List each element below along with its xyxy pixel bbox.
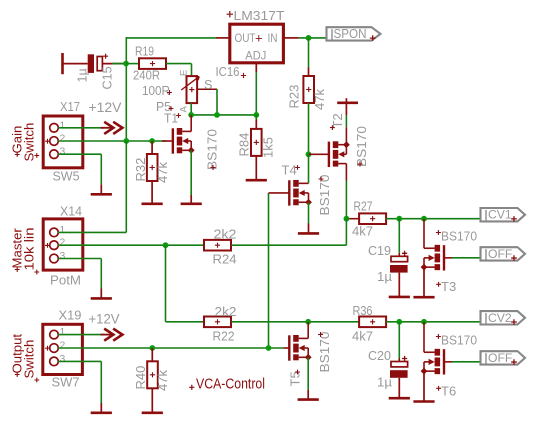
node junction R24 left (163, 242, 169, 248)
connector X17 box (43, 116, 83, 168)
transistor T6 BS170 (443, 349, 445, 374)
svg-text:R32: R32 (133, 158, 148, 182)
wire T1 source down (190, 150, 192, 195)
svg-text:Switch: Switch (22, 123, 37, 162)
wire C19 bottom (398, 273, 400, 297)
svg-text:BS170: BS170 (317, 175, 332, 216)
wire supply to T2 drain (345, 115, 347, 127)
ground T6 (413, 400, 434, 403)
svg-text:OFF: OFF (488, 247, 512, 261)
connector X14 pins (50, 228, 59, 237)
svg-text:1µ: 1µ (377, 375, 392, 390)
capacitor C15 (88, 54, 94, 73)
node junction ADJ/R84 (253, 112, 259, 118)
label T3 (436, 282, 441, 287)
wire T6 gate to OFF (452, 361, 481, 363)
connector X19 box (43, 324, 83, 374)
svg-text:1: 1 (60, 225, 66, 236)
svg-text:3: 3 (60, 354, 66, 365)
resistor R19 (139, 58, 166, 69)
wire T2gate node down (308, 154, 310, 183)
node junction R40 (149, 345, 155, 351)
svg-text:BS170: BS170 (354, 126, 369, 167)
svg-text:IN: IN (268, 31, 278, 45)
svg-text:R27: R27 (354, 199, 373, 214)
ground R84 (246, 179, 267, 182)
wire IN node down (308, 38, 310, 68)
svg-text:2: 2 (60, 238, 66, 249)
wire C20 bottom (398, 378, 400, 398)
svg-text:1: 1 (60, 120, 66, 131)
wire T4 source down (308, 202, 310, 223)
wire T5 source down (307, 357, 309, 390)
wiper S wire (197, 88, 218, 90)
label LM317T (227, 11, 233, 17)
svg-text:1: 1 (60, 327, 66, 338)
svg-text:SPON: SPON (334, 27, 367, 41)
svg-text:CV2: CV2 (488, 311, 512, 325)
svg-text:C19: C19 (368, 243, 391, 258)
ground R32 (142, 203, 163, 206)
svg-text:T6: T6 (441, 384, 456, 399)
svg-text:S: S (204, 78, 212, 92)
node junction C19 top (396, 216, 402, 222)
connector X19 pins (50, 330, 59, 339)
wire X17 pin1 to +12V (58, 127, 104, 129)
svg-text:R36: R36 (353, 303, 373, 318)
X14 origin cross (45, 243, 50, 248)
resistor R24 (204, 240, 231, 251)
wire OUT rail top (126, 37, 216, 39)
wire T6 source down (423, 371, 425, 401)
node junction R32 (149, 138, 155, 144)
svg-text:X17: X17 (60, 99, 80, 114)
svg-text:47k: 47k (155, 162, 170, 183)
resistor R40 (147, 361, 158, 388)
svg-text:2k2: 2k2 (215, 304, 237, 319)
capacitor C20 (391, 362, 408, 367)
wire T2 source to R27 (346, 218, 359, 220)
wire CV2 node down (423, 322, 425, 352)
node junction R27 left (344, 216, 350, 222)
ground X14 pin3 (100, 289, 102, 299)
pin R84 top (255, 120, 257, 130)
pin OUT (216, 37, 230, 39)
svg-text:VCA-Control: VCA-Control (196, 377, 265, 393)
wire T2 source down (345, 164, 347, 181)
wire R24left down (165, 245, 167, 322)
wire R24 right (231, 244, 346, 246)
node junction T2 gate (306, 151, 312, 157)
ground X19 pin3 (100, 403, 102, 413)
flag CV1 (481, 208, 526, 221)
wire R22/R36 node down to T5 (307, 322, 309, 339)
svg-text:X14: X14 (60, 204, 82, 219)
svg-text:T4: T4 (282, 163, 297, 178)
wire X14 pin2 (58, 244, 204, 246)
wire X19 pin2 (58, 347, 284, 349)
svg-text:X19: X19 (59, 308, 82, 323)
svg-text:4k7: 4k7 (352, 224, 373, 239)
svg-text:OUT: OUT (235, 31, 256, 45)
node junction rail/pin2 (123, 138, 129, 144)
transistor T2 BS170 (328, 142, 330, 167)
wire node to R19 (126, 63, 139, 65)
svg-text:C15: C15 (101, 66, 115, 89)
wire to R40 (151, 348, 153, 362)
resistor R27 (359, 213, 386, 224)
wire to R32 (151, 141, 153, 154)
label T6 (436, 386, 441, 391)
wire X19 pin3 (58, 360, 101, 362)
X17 origin cross (45, 139, 50, 144)
svg-text:Switch: Switch (22, 340, 37, 379)
ground T5 (307, 390, 309, 400)
pin ADJ (255, 62, 257, 73)
node junction T5 gate riser (266, 345, 272, 351)
supply +12V chevron X19 (101, 334, 113, 336)
supply bar T2 (337, 102, 358, 105)
transistor T4 BS170 (288, 180, 290, 205)
wire R27 right (386, 218, 480, 220)
svg-text:BS170: BS170 (205, 129, 220, 170)
wire X17 pin3 (58, 153, 101, 155)
wire T4 gate riser (268, 193, 270, 348)
svg-text:T5: T5 (288, 371, 303, 386)
svg-text:+: + (255, 30, 263, 45)
transistor T3 BS170 (443, 245, 445, 270)
svg-text:CV1: CV1 (488, 208, 512, 222)
pin IN (284, 37, 299, 39)
wire X14 pin3 (58, 258, 101, 260)
node junction C20 top (396, 319, 402, 325)
connector X14 box (43, 219, 83, 270)
node junction wiper (214, 112, 220, 118)
flag OFF2 (481, 351, 526, 364)
wire ADJ down (255, 72, 257, 115)
svg-text:1µ: 1µ (76, 68, 90, 82)
pin T3 gate (444, 257, 452, 259)
wire T1 drain up (190, 115, 192, 131)
svg-text:3: 3 (60, 147, 66, 158)
connector X17 pins (50, 124, 59, 133)
ground T3 (413, 296, 434, 299)
svg-text:100R: 100R (142, 83, 170, 98)
svg-text:1k5: 1k5 (261, 137, 276, 158)
pin T6 gate (444, 361, 452, 363)
svg-text:R40: R40 (133, 366, 148, 390)
wire R36 right (386, 321, 480, 323)
wire X14 pin1 (58, 231, 126, 233)
svg-text:240R: 240R (133, 68, 160, 83)
resistor R32 (147, 154, 158, 181)
transistor T5 BS170 (288, 335, 290, 360)
wire T3 source down (423, 267, 425, 297)
label VCA-Control (189, 385, 194, 390)
svg-text:BS170: BS170 (441, 229, 477, 244)
potentiometer P5 (187, 76, 198, 103)
svg-text:BS170: BS170 (441, 333, 477, 348)
wire R84 to ground (255, 156, 257, 180)
node junction T5 drain (305, 319, 311, 325)
wire C20 top (398, 322, 400, 358)
wire CV1 node down (423, 219, 425, 249)
ground left of C15 (61, 53, 64, 74)
resistor R22 (204, 317, 231, 328)
capacitor C19 (391, 256, 408, 261)
node junction T3 drain (421, 216, 427, 222)
node junction C15/R19 (123, 61, 129, 67)
X19 origin cross (45, 346, 50, 351)
svg-text:2: 2 (60, 341, 66, 352)
svg-text:R23: R23 (287, 85, 302, 109)
flag OFF1 (481, 247, 526, 260)
svg-text:C20: C20 (368, 348, 391, 363)
flag CV2 (481, 311, 526, 324)
svg-text:10k lin: 10k lin (22, 228, 37, 271)
node junction IN (306, 35, 312, 41)
resistor R36 (359, 317, 386, 328)
svg-text:2k2: 2k2 (214, 226, 237, 241)
wire R19 to P5 (166, 63, 192, 65)
svg-text:47k: 47k (312, 89, 327, 110)
node junction T6 drain (421, 319, 427, 325)
wire R22 right (231, 321, 359, 323)
pin T5 gate (284, 347, 290, 349)
wire R23 down to T2 gate node (308, 103, 310, 154)
resistor R84 (251, 129, 262, 156)
svg-text:+12V: +12V (89, 311, 120, 326)
svg-text:IC16: IC16 (216, 64, 240, 79)
svg-text:+12V: +12V (89, 100, 122, 115)
wire X19 pin1 to +12V (58, 334, 104, 336)
wire IN to SPON (299, 37, 327, 39)
wire C19 top (398, 219, 400, 253)
supply +12V chevron X17 (101, 127, 113, 129)
svg-text:SW7: SW7 (52, 374, 80, 389)
ground C20 (389, 397, 410, 400)
resistor R23 (303, 76, 314, 103)
wire mid rail (191, 114, 256, 116)
wire X17 pin2 (58, 140, 167, 142)
svg-text:R19: R19 (135, 44, 154, 59)
wire C15 to node (102, 63, 126, 65)
pin T1 gate (162, 140, 173, 142)
svg-text:SW5: SW5 (53, 168, 80, 183)
svg-text:A: A (179, 106, 190, 113)
flag SPON (327, 27, 381, 40)
svg-text:ADJ: ADJ (245, 48, 266, 62)
ground T1 (190, 195, 192, 204)
svg-text:2: 2 (60, 134, 66, 145)
label BS170 T3 (436, 230, 441, 235)
wire riser to R27 node (345, 219, 347, 246)
op-amp U1 / regulator IC16 LM317T box (230, 24, 284, 63)
svg-text:T1: T1 (164, 111, 178, 126)
wire T3 gate to OFF (452, 257, 481, 259)
svg-text:T3: T3 (441, 279, 456, 294)
ground C19 (389, 296, 410, 299)
svg-text:1µ: 1µ (377, 269, 392, 284)
svg-text:BS170: BS170 (317, 332, 332, 373)
wire P5 bottom (190, 103, 192, 115)
ground R40 (142, 411, 163, 414)
wire R32 to ground (151, 181, 153, 204)
svg-text:R22: R22 (213, 329, 235, 344)
transistor T1 BS170 (172, 128, 174, 153)
svg-text:47k: 47k (155, 370, 170, 391)
svg-text:OFF: OFF (488, 351, 512, 365)
pin T2 gate (309, 153, 329, 155)
wire R40 to ground (151, 388, 153, 413)
label BS170 T6 (436, 334, 441, 339)
svg-text:R84: R84 (236, 133, 251, 157)
wire C15 node green (112, 63, 126, 65)
svg-text:3: 3 (60, 251, 66, 262)
wire rail to R84 (255, 115, 257, 121)
wire OUT rail vertical (125, 37, 127, 141)
ground X17 pin3 (100, 184, 102, 194)
node junction P5 bottom (188, 112, 194, 118)
svg-text:R24: R24 (213, 251, 237, 266)
svg-text:E: E (179, 70, 190, 76)
svg-text:PotM: PotM (50, 273, 81, 288)
ground T4 (308, 224, 310, 234)
svg-text:4k7: 4k7 (352, 329, 373, 344)
svg-text:LM317T: LM317T (234, 8, 285, 23)
